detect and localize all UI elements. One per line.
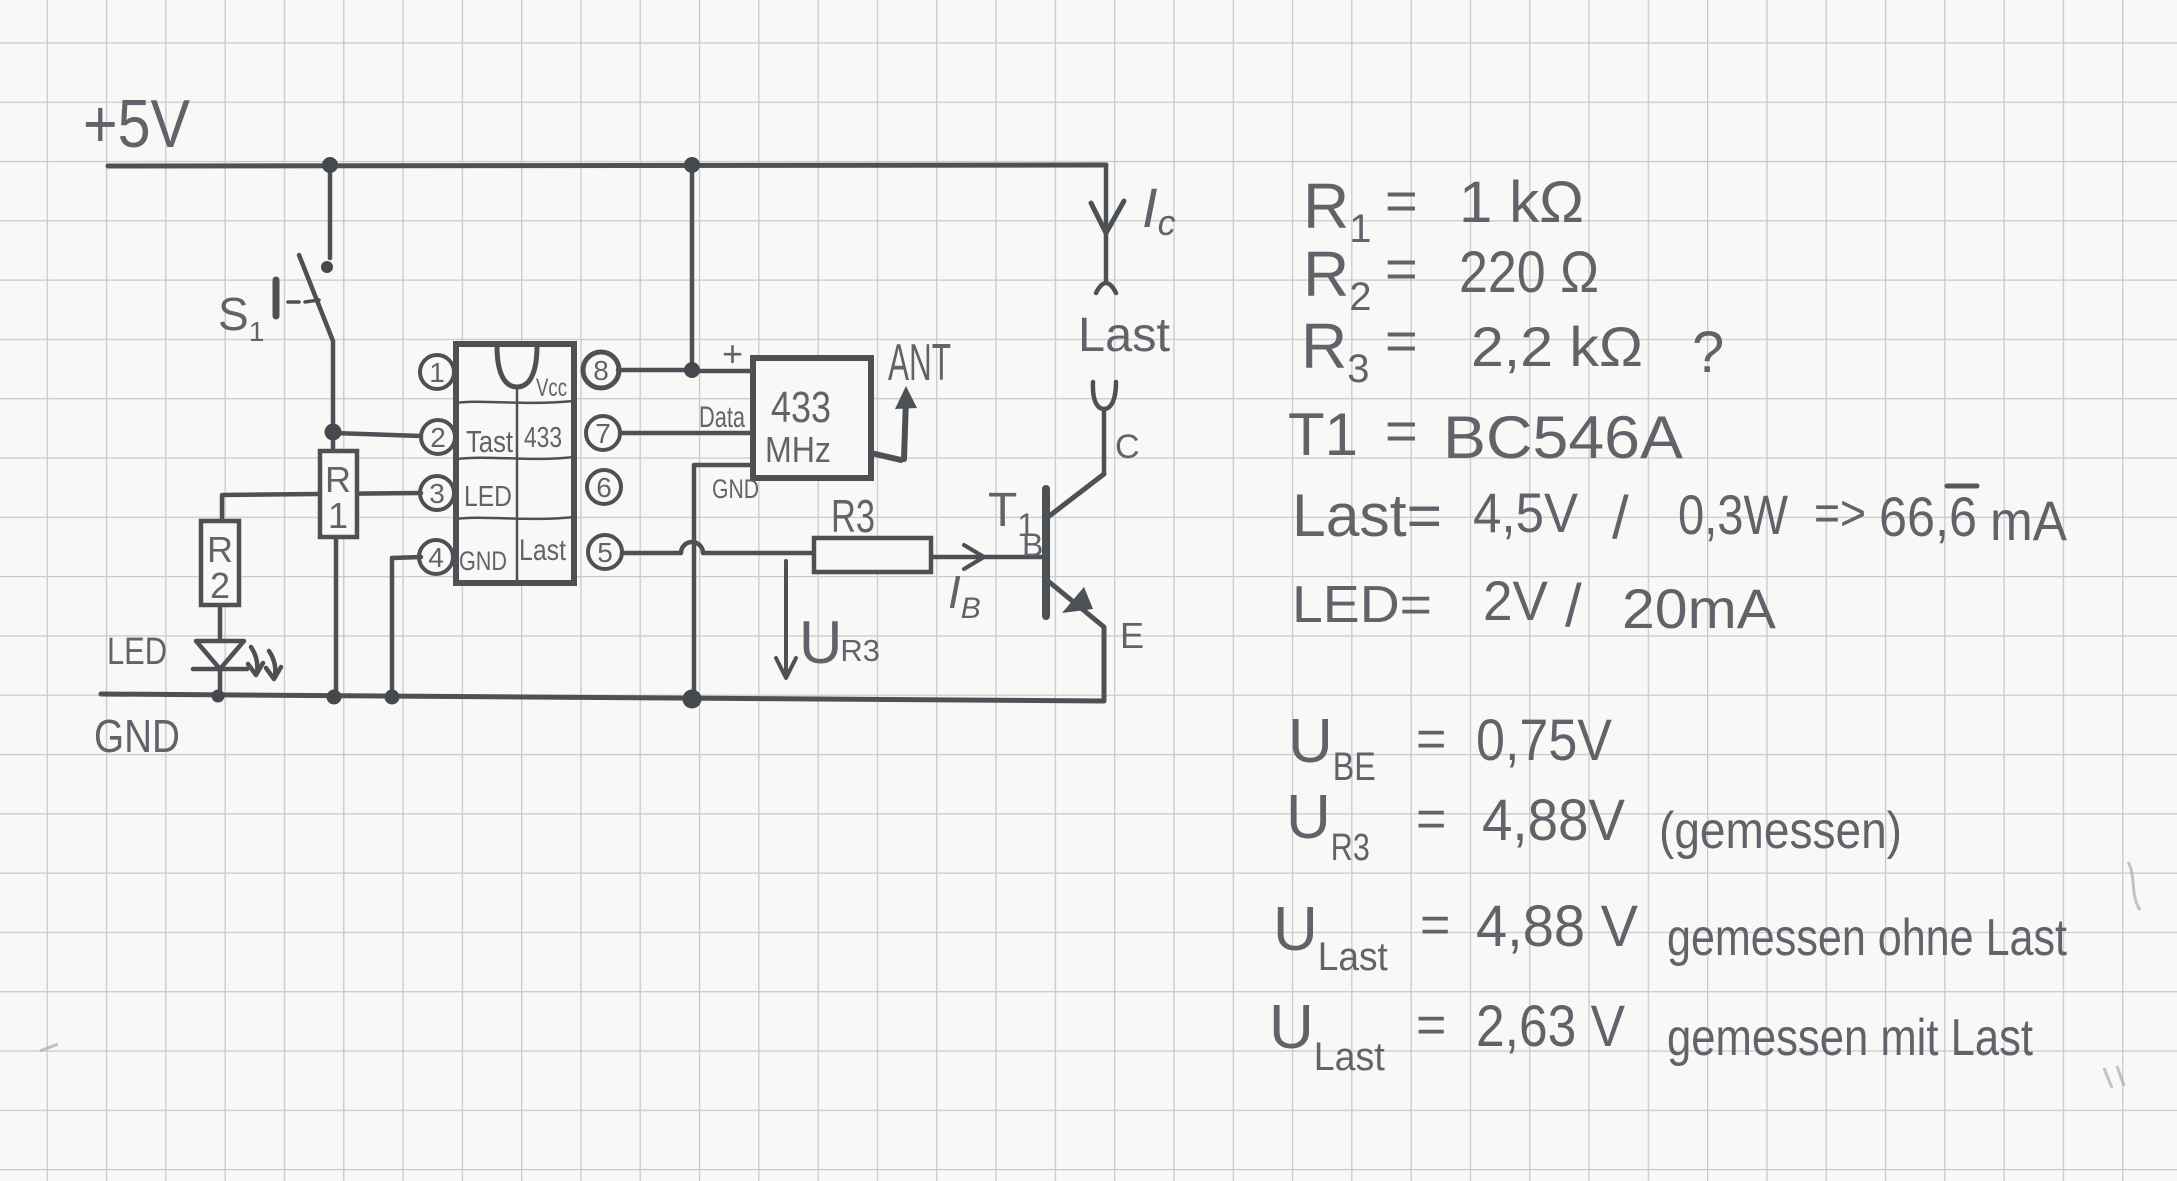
switch S1 actuator <box>273 280 280 316</box>
transistor T1 bar <box>1042 489 1050 616</box>
load connector fork <box>1093 382 1116 474</box>
svg-text:2,2 kΩ: 2,2 kΩ <box>1471 315 1643 378</box>
resistor R1 <box>320 451 357 537</box>
svg-text:3: 3 <box>429 478 445 509</box>
arrow Ic head <box>1091 201 1124 233</box>
svg-text:20mA: 20mA <box>1622 577 1777 640</box>
IC dividers <box>456 387 574 583</box>
svg-text:Data: Data <box>699 401 745 434</box>
pin 5 <box>588 535 622 569</box>
LED D1 <box>193 641 281 679</box>
pin 6 <box>587 470 621 504</box>
svg-text:8: 8 <box>593 355 609 386</box>
svg-text:E: E <box>1120 615 1144 656</box>
svg-text:433: 433 <box>771 383 831 432</box>
svg-text:C: C <box>1115 428 1140 466</box>
svg-text:GND: GND <box>459 546 507 576</box>
wire emitter diagonal <box>1048 581 1104 700</box>
wire pin5 to R3 with hop <box>622 542 814 553</box>
svg-text:Last=: Last= <box>1292 482 1442 549</box>
svg-text:Tast: Tast <box>466 424 513 459</box>
svg-text:GND: GND <box>94 710 180 762</box>
svg-text:=: = <box>1385 237 1418 300</box>
svg-text:LED: LED <box>107 631 167 673</box>
svg-text:=: = <box>1420 896 1450 954</box>
junction dot pin8 Vcc node <box>684 362 700 378</box>
wire pin7 Data into RF module <box>620 431 753 436</box>
svg-text:220 Ω: 220 Ω <box>1459 240 1599 305</box>
wire RF module GND down to rail <box>694 465 753 697</box>
wire Vcc drop to module junction <box>690 165 695 369</box>
svg-text:?: ? <box>1692 320 1724 385</box>
svg-text:LED: LED <box>464 481 512 513</box>
svg-text:R3: R3 <box>831 490 875 542</box>
svg-text:4: 4 <box>428 542 444 573</box>
wire LED to GND rail <box>218 669 223 696</box>
faint pencil smudge right margin <box>2128 862 2140 910</box>
svg-text:R: R <box>325 459 351 500</box>
svg-text:=>: => <box>1814 485 1866 541</box>
junction dot module GND rail <box>683 690 702 709</box>
svg-text:66,6: 66,6 <box>1879 485 1977 548</box>
wire pin8 to Vcc node <box>618 368 692 373</box>
svg-text:7: 7 <box>595 418 611 449</box>
wire S1 to R1 top <box>331 341 336 451</box>
svg-text:4,88 V: 4,88 V <box>1476 894 1638 959</box>
svg-text:0,3W: 0,3W <box>1678 483 1788 546</box>
wire +5V rail <box>108 165 1106 166</box>
svg-text:/: / <box>1612 484 1629 551</box>
wire + into RF module <box>692 369 753 374</box>
junction dot LED GND <box>212 690 225 703</box>
junction dot pin4 GND <box>385 690 400 705</box>
wire load top with Ic <box>1104 165 1109 280</box>
svg-text:ANT: ANT <box>888 334 951 392</box>
junction dot Vcc rail <box>684 157 700 173</box>
svg-text:LED=: LED= <box>1292 576 1432 634</box>
faint tick marks below last note <box>2104 1066 2124 1088</box>
wire R1 bottom to GND rail <box>334 537 339 696</box>
svg-text:B: B <box>1022 527 1043 563</box>
svg-text:0,75V: 0,75V <box>1476 708 1612 773</box>
arrow IB head <box>964 545 984 569</box>
svg-text:mA: mA <box>1990 489 2068 552</box>
svg-text:MHz: MHz <box>765 429 831 470</box>
junction dot R1 top <box>325 424 342 441</box>
svg-text:5: 5 <box>597 537 613 568</box>
pin 4 <box>419 540 453 574</box>
resistor R3 <box>814 538 931 572</box>
svg-text:2,63 V: 2,63 V <box>1476 994 1625 1059</box>
svg-text:Last: Last <box>519 534 567 567</box>
svg-text:1: 1 <box>328 495 348 536</box>
svg-text:gemessen mit Last: gemessen mit Last <box>1667 1009 2033 1067</box>
IC U1 box <box>456 344 574 583</box>
pin 3 <box>420 476 454 510</box>
svg-text:1: 1 <box>429 357 445 388</box>
pin 7 <box>586 416 620 450</box>
junction dot S1 rail <box>322 157 338 173</box>
svg-text:=: = <box>1416 710 1446 768</box>
svg-text:=: = <box>1385 309 1418 372</box>
svg-text:T1: T1 <box>1288 401 1358 468</box>
svg-text:/: / <box>1565 572 1582 639</box>
RF module box <box>753 358 871 478</box>
svg-text:4,5V: 4,5V <box>1473 481 1579 544</box>
pin 2 <box>421 420 455 454</box>
svg-text:2: 2 <box>210 565 230 606</box>
faint pencil smudge bottom left <box>40 1044 58 1051</box>
svg-text:6: 6 <box>596 472 612 503</box>
wire R2 bottom to LED <box>218 605 223 641</box>
svg-text:=: = <box>1385 169 1418 232</box>
wire pin4 to GND rail <box>392 557 421 697</box>
antenna arrow <box>871 398 906 460</box>
svg-text:Last: Last <box>1078 309 1170 362</box>
svg-text:4,88V: 4,88V <box>1482 788 1625 853</box>
wire collector diagonal <box>1048 474 1104 517</box>
svg-text:433: 433 <box>524 422 562 454</box>
wire R2 to pin3 (passes behind R1) <box>222 493 421 521</box>
wire S1 upper stub <box>328 165 333 258</box>
wire GND rail <box>101 694 1104 701</box>
svg-text:(gemessen): (gemessen) <box>1659 802 1902 860</box>
svg-text:=: = <box>1416 790 1446 848</box>
load connector hook <box>1096 283 1116 293</box>
resistor R2 <box>201 521 239 605</box>
pin 1 <box>420 355 454 389</box>
switch S1 blade <box>299 255 333 341</box>
svg-text:+5V: +5V <box>83 86 191 162</box>
svg-text:1 kΩ: 1 kΩ <box>1459 170 1584 235</box>
svg-text:Vcc: Vcc <box>536 374 567 402</box>
pin 8 <box>583 352 619 388</box>
IC notch <box>497 346 537 387</box>
svg-text:GND: GND <box>712 474 759 504</box>
junction dot S1 contact <box>321 261 333 273</box>
svg-text:R: R <box>207 529 233 570</box>
svg-text:=: = <box>1416 996 1446 1054</box>
wire R3 to base <box>931 555 1042 560</box>
wire pin2 from R1 top <box>333 433 421 436</box>
switch S1 actuator dashes <box>288 300 319 302</box>
transistor emitter arrow <box>1062 587 1093 613</box>
svg-text:2V: 2V <box>1483 569 1549 632</box>
svg-text:BC546A: BC546A <box>1443 404 1683 471</box>
arrow UR3 <box>776 561 796 678</box>
svg-text:2: 2 <box>430 422 446 453</box>
junction dot R1 GND <box>327 690 342 705</box>
svg-text:gemessen ohne Last: gemessen ohne Last <box>1667 909 2067 967</box>
svg-text:=: = <box>1385 399 1418 462</box>
svg-text:+: + <box>722 333 743 374</box>
